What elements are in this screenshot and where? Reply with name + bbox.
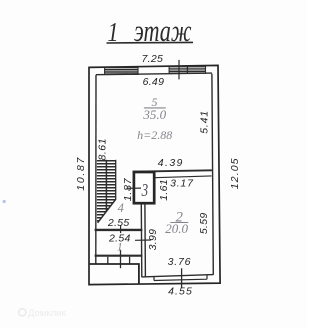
tick on bottom wall <box>181 268 183 287</box>
svg-text:10.87: 10.87 <box>75 156 87 191</box>
svg-text:3.76: 3.76 <box>168 256 192 268</box>
divider wall rooms 4/1 vs room 2 (double line) <box>141 204 145 277</box>
svg-text:3.99: 3.99 <box>147 229 159 251</box>
room 1 bottom wall <box>95 255 143 257</box>
svg-text:5.59: 5.59 <box>198 212 210 234</box>
tick on room4/1 wall <box>120 225 122 233</box>
left wall inner line <box>95 75 97 264</box>
svg-text:Домклик: Домклик <box>28 308 66 319</box>
tick on top wall at 179 <box>178 60 180 80</box>
dim line 3.17 <box>155 176 212 178</box>
door tick room1/porch <box>120 250 122 269</box>
door tick on divider wall <box>135 239 151 241</box>
svg-text:1.61: 1.61 <box>158 179 170 201</box>
dimension labels <box>75 53 241 298</box>
svg-text:5.41: 5.41 <box>199 110 211 134</box>
svg-text:12.05: 12.05 <box>229 157 241 189</box>
top wall inner line <box>96 73 212 75</box>
window W1 top wall <box>105 68 138 75</box>
stairs diagonal cut <box>98 199 116 223</box>
watermark Домклик <box>19 308 67 319</box>
svg-text:2.55: 2.55 <box>107 217 130 229</box>
svg-text:4.55: 4.55 <box>168 286 193 298</box>
leader line room 3 <box>127 187 141 189</box>
dim tick 3.17 left <box>153 175 155 181</box>
room5 bottom wall <box>133 170 212 171</box>
blue dot artifact <box>3 200 6 203</box>
vestibule jambs <box>108 257 130 264</box>
svg-text:1: 1 <box>117 242 123 254</box>
stairs right edge <box>115 160 117 200</box>
stairs <box>97 160 116 223</box>
title underline <box>107 41 194 44</box>
window W2 top wall <box>169 66 205 73</box>
svg-text:3: 3 <box>141 181 149 200</box>
svg-text:8.61: 8.61 <box>96 138 108 160</box>
porch <box>89 264 139 284</box>
svg-text:20.0: 20.0 <box>165 221 188 236</box>
title 1 этаж <box>108 14 192 48</box>
room labels <box>117 95 189 254</box>
svg-text:1.87: 1.87 <box>122 177 134 201</box>
bottom window recess <box>154 275 207 281</box>
stairs middle stringer <box>105 160 107 212</box>
svg-text:3.17: 3.17 <box>170 177 194 189</box>
room 3 (bathroom) box <box>134 172 154 203</box>
svg-text:4: 4 <box>118 201 124 215</box>
svg-text:h=2.88: h=2.88 <box>137 128 172 142</box>
bottom wall inner line <box>142 275 214 277</box>
svg-text:4.39: 4.39 <box>158 157 184 169</box>
svg-text:7.25: 7.25 <box>141 53 163 65</box>
wall between room 4 and room 1 <box>95 229 143 231</box>
room 5 label underline <box>144 107 166 109</box>
svg-text:6.49: 6.49 <box>143 76 165 88</box>
svg-text:35.0: 35.0 <box>142 107 166 122</box>
outer wall outline <box>89 65 220 284</box>
room 2 label underline <box>170 222 188 224</box>
right wall inner line <box>212 74 213 275</box>
